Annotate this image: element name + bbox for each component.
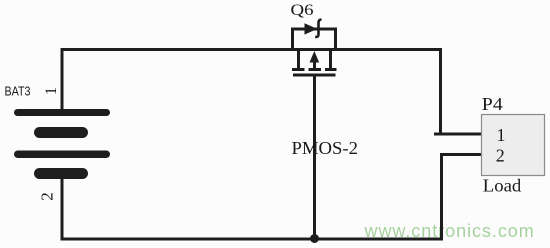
wire left vertical lower (battery pin 2 down to bottom rail) — [61, 178, 64, 241]
battery BAT3 plates — [14, 109, 110, 179]
wire left vertical (top rail down to battery pin 1) — [61, 48, 64, 110]
bulk arrow shaft — [313, 61, 316, 70]
connector P4 box — [482, 115, 545, 176]
wire bottom rail — [61, 238, 444, 241]
gate bar — [293, 74, 336, 77]
svg-text:Q6: Q6 — [291, 2, 314, 19]
wire P4 pin 1 horizontal — [434, 133, 482, 136]
wire top rail (battery + to transistor source/drain to right side) — [61, 48, 442, 51]
node junction dot on bottom rail — [310, 234, 319, 243]
body diode loop right vertical — [334, 28, 337, 49]
svg-text:P4: P4 — [482, 94, 503, 114]
svg-text:1: 1 — [43, 87, 60, 95]
body diode triangle (anode) — [305, 23, 318, 34]
wire right vertical upper (top rail down to P4 pin 1) — [439, 48, 442, 136]
wire right vertical lower (P4 pin 2 down to bottom rail) — [440, 153, 443, 241]
svg-text:BAT3: BAT3 — [5, 84, 31, 99]
channel plate right — [325, 68, 337, 71]
wire P4 pin 2 horizontal — [440, 153, 482, 156]
drain stub right — [329, 50, 332, 68]
svg-text:2: 2 — [496, 146, 505, 166]
bulk arrow head (pointing up) — [310, 51, 320, 63]
svg-text:1: 1 — [497, 125, 506, 145]
wire gate vertical (transistor gate down to bottom rail) — [313, 76, 316, 239]
channel plate middle — [309, 68, 322, 71]
source stub left — [297, 50, 300, 68]
svg-text:2: 2 — [38, 192, 57, 201]
transistor Q6 PMOS body — [291, 28, 337, 76]
body diode loop left vertical — [291, 28, 294, 49]
body diode horizontal line — [291, 28, 337, 31]
svg-text:PMOS-2: PMOS-2 — [292, 138, 359, 158]
channel plate left — [292, 68, 305, 71]
body diode schottky cathode bar — [315, 20, 321, 37]
svg-text:Load: Load — [483, 176, 522, 196]
